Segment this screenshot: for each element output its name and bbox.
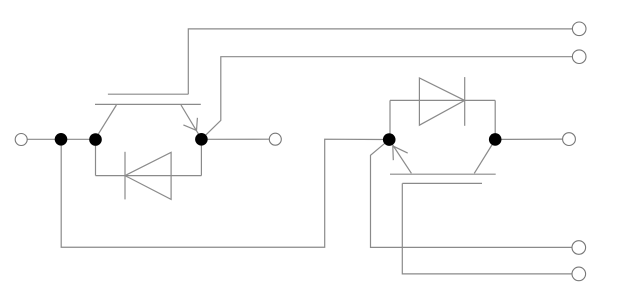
terminal: mid power terminal (269, 133, 281, 145)
wire: Q1 auxiliary emitter from node C to terminal E1 (201, 57, 572, 140)
wire: diode D2 axis (390, 99, 495, 101)
terminal: gate G1 (572, 22, 586, 36)
terminal: gate G2 (572, 267, 586, 281)
wire: Q1 gate to top-right terminal G1 (188, 29, 572, 94)
wire: Q2 auxiliary emitter from node D to terminal E2 (371, 140, 573, 248)
wire: node A down, across bottom, up to node D (61, 139, 389, 247)
wire: node D up to diode D2 anode (389, 100, 391, 139)
wire: node C to mid terminal (201, 138, 269, 140)
diode D1 (free-wheel diode, points left) (125, 152, 171, 200)
node A junction (55, 133, 68, 146)
transistor Q2 (lower IGBT) (389, 140, 495, 183)
node C junction (195, 133, 208, 146)
diode D2 (free-wheel diode, points right) (419, 77, 464, 126)
terminal: aux emitter E2 (572, 241, 586, 255)
node E junction (489, 133, 502, 146)
wire: node E to right terminal (495, 138, 562, 140)
transistor Q1 (upper IGBT) (95, 94, 201, 138)
wire: diode D1 axis (96, 175, 202, 177)
terminal: left power terminal (15, 134, 27, 146)
wire: Q2 gate to bottom-right terminal G2 (402, 183, 572, 274)
wire: node B down to diode D1 cathode (95, 140, 97, 176)
terminal: aux emitter E1 (572, 50, 586, 64)
wire: main bus left terminal to node B (27, 138, 95, 140)
terminal: right power terminal (563, 133, 576, 146)
wire: diode D2 cathode down to node E (494, 100, 496, 139)
wire: diode D1 anode up to node C (200, 139, 202, 175)
node B junction (89, 133, 102, 146)
node D junction (383, 133, 396, 146)
